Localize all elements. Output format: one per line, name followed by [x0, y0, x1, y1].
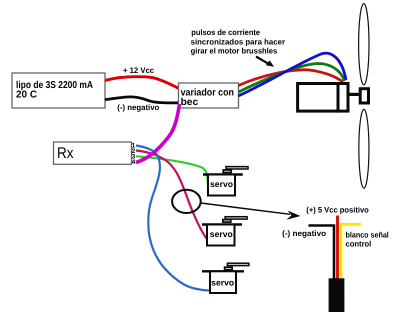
arrow from note to motor wires	[256, 57, 274, 67]
wire black negative servo lead	[309, 226, 335, 280]
svg-text:Rx: Rx	[57, 145, 74, 162]
propeller hub	[360, 89, 368, 103]
svg-text:4: 4	[132, 159, 136, 166]
svg-text:control: control	[346, 240, 372, 249]
svg-text:+ 12 Vcc: + 12 Vcc	[123, 66, 155, 75]
svg-text:girar el motor brusshles: girar el motor brusshles	[191, 47, 278, 56]
svg-text:(+) 5 Vcc positivo: (+) 5 Vcc positivo	[306, 206, 369, 215]
svg-text:servo: servo	[210, 179, 233, 189]
wire yellow signal servo lead	[341, 224, 361, 279]
wire motor phase red	[239, 70, 344, 86]
propeller blade bottom	[359, 109, 369, 188]
wire motor phase green	[239, 64, 345, 93]
svg-text:servo: servo	[210, 229, 233, 239]
wire green Rx pin3 to servo1	[136, 156, 208, 186]
wire motor phase blue	[239, 53, 347, 96]
svg-text:servo: servo	[211, 278, 234, 288]
wire crimson Rx pin2 to servo2	[136, 151, 208, 241]
wire red +12V battery to ESC	[105, 77, 179, 89]
svg-text:bec: bec	[181, 97, 199, 108]
node circle highlight	[172, 190, 201, 213]
label blanco señal control	[346, 230, 389, 248]
wire red 5V servo lead	[336, 216, 339, 280]
servo connector plug	[329, 278, 345, 312]
motor M1 brushless	[298, 82, 348, 113]
ESC U1 variador con bec	[179, 83, 239, 108]
receiver Rx	[54, 142, 132, 164]
wire blue Rx pin1 to servo3	[136, 146, 209, 291]
battery B1 lipo	[12, 73, 105, 108]
svg-text:(-) negativo: (-) negativo	[117, 103, 159, 112]
svg-text:20 C: 20 C	[16, 90, 37, 101]
note pulsos de corriente	[191, 28, 285, 56]
servo S2	[202, 217, 247, 246]
servo S3	[202, 263, 249, 293]
callout line to connector detail	[201, 203, 290, 214]
propeller blade top	[359, 4, 369, 85]
wire black negative battery to ESC	[105, 97, 179, 103]
servo S1	[203, 167, 248, 196]
wire magenta Rx pin4 to ESC	[136, 104, 180, 163]
svg-text:sincronizados para hacer: sincronizados para hacer	[191, 37, 285, 46]
motor shaft	[350, 93, 361, 96]
callout arrowhead	[287, 211, 301, 220]
svg-text:(-) negativo: (-) negativo	[282, 229, 326, 238]
svg-text:blanco señal: blanco señal	[346, 230, 389, 239]
svg-text:pulsos de corriente: pulsos de corriente	[191, 28, 260, 37]
